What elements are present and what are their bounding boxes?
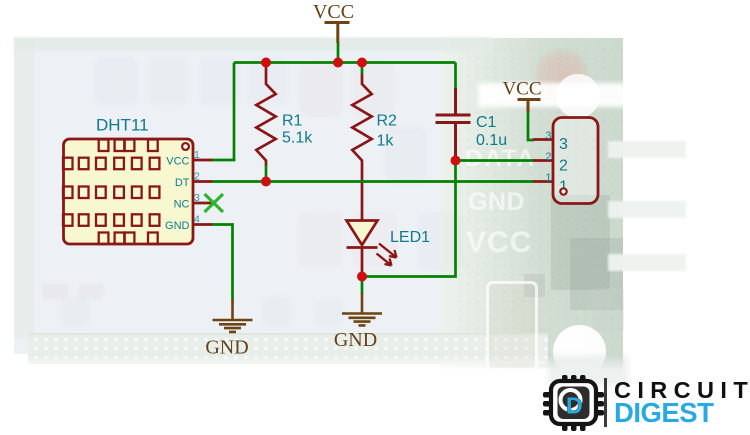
- pin 2: [193, 180, 213, 183]
- svg-text:VCC: VCC: [166, 155, 189, 167]
- svg-text:1k: 1k: [377, 133, 395, 150]
- svg-text:2: 2: [545, 151, 551, 163]
- svg-text:3: 3: [545, 130, 551, 142]
- svg-text:R1: R1: [282, 113, 303, 130]
- pin 1: [193, 159, 213, 162]
- junction dots: [261, 58, 271, 68]
- svg-text:1: 1: [545, 172, 551, 184]
- no-connect X on pin 3: [205, 194, 224, 212]
- svg-text:DHT11: DHT11: [96, 116, 149, 135]
- svg-text:DT: DT: [175, 177, 190, 189]
- connector J1 body: [545, 118, 598, 204]
- white header pins right: [608, 141, 686, 158]
- faint component shadows on washed board: [95, 57, 137, 105]
- pin 3: [193, 202, 213, 205]
- capacitor C1: [436, 63, 508, 162]
- pin 4: [193, 223, 213, 226]
- svg-text:3: 3: [559, 136, 568, 153]
- wire: left drop from rail to DHT11 pin1: [233, 63, 236, 161]
- wire: top VCC rail: [234, 61, 456, 64]
- svg-text:5.1k: 5.1k: [282, 130, 313, 147]
- svg-text:VCC: VCC: [502, 79, 541, 100]
- svg-text:3: 3: [194, 192, 200, 204]
- LED LED1: [347, 221, 431, 278]
- wire: C1 junction to connector pin2: [456, 159, 534, 162]
- bright white pin bar top right: [478, 83, 646, 107]
- resistor R1: [256, 63, 313, 182]
- wire: GND wire from DHT11 pin4: [211, 225, 233, 301]
- svg-text:4: 4: [194, 214, 200, 226]
- power flag VCC above connector: [502, 79, 541, 141]
- ground GND under LED: [334, 277, 382, 352]
- svg-text:1: 1: [194, 149, 200, 161]
- svg-text:2: 2: [559, 158, 568, 175]
- svg-text:0.1u: 0.1u: [476, 132, 507, 149]
- svg-text:LED1: LED1: [390, 229, 430, 246]
- DHT11 U1: [63, 116, 223, 245]
- svg-text:R2: R2: [377, 113, 398, 130]
- white round pad bottom right: [553, 325, 606, 378]
- dark pin header body: [551, 195, 610, 290]
- svg-text:C1: C1: [476, 114, 497, 131]
- wire: DT data line: [211, 180, 534, 183]
- faded red LED blob on pcb: [534, 48, 590, 104]
- resistor R2: [352, 63, 397, 222]
- svg-text:GND: GND: [205, 337, 248, 359]
- power flag VCC top: [313, 1, 354, 63]
- wire: pin1 VCC to left drop: [211, 159, 235, 162]
- svg-text:NC: NC: [174, 198, 190, 210]
- svg-text:VCC: VCC: [313, 1, 354, 23]
- svg-text:2: 2: [194, 171, 200, 183]
- connector J1 pin lines: [533, 140, 553, 182]
- svg-text:GND: GND: [165, 220, 190, 232]
- washed capacitor component bottom: [486, 281, 538, 371]
- svg-text:GND: GND: [334, 329, 377, 351]
- svg-text:D: D: [566, 393, 583, 419]
- PCB silkscreen white texts: [465, 145, 575, 173]
- ground GND under DHT11: [205, 299, 252, 359]
- wire: C1 junction down to LED cathode rail: [362, 161, 456, 277]
